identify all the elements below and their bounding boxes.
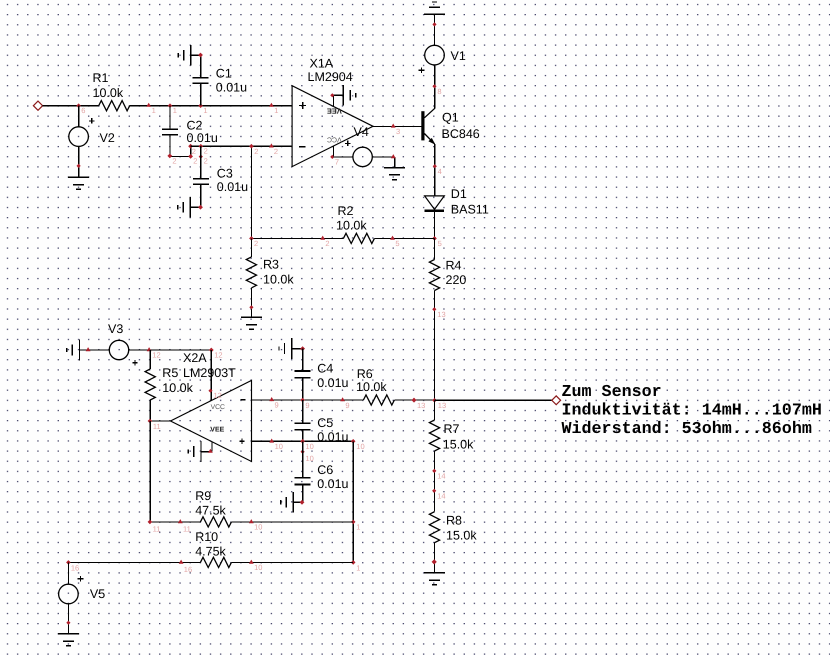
svg-text:LM2903T: LM2903T bbox=[183, 366, 236, 380]
voltage source V3 bbox=[109, 340, 128, 359]
wire C2 bottom jog bbox=[170, 136, 191, 157]
wire C6 bottom lead bbox=[293, 485, 302, 503]
wire V1 bottom bbox=[434, 65, 436, 109]
svg-text:13: 13 bbox=[437, 310, 445, 319]
pin mark X2A plus pin bbox=[269, 439, 274, 443]
plus sign V2 bbox=[89, 120, 95, 122]
svg-text:Q1: Q1 bbox=[442, 111, 459, 125]
ground V3 (rotated left) bbox=[79, 340, 81, 361]
svg-text:1: 1 bbox=[173, 106, 177, 115]
junction node N1/C1 bbox=[198, 103, 203, 108]
svg-text:R4: R4 bbox=[446, 258, 462, 272]
ground X1A VEE (rotated right) bbox=[342, 85, 344, 106]
op-amp X1A triangle bbox=[292, 86, 373, 167]
pin mark R1 right pin bbox=[146, 103, 151, 107]
pin mark X2A minus pin bbox=[269, 397, 274, 401]
pin mark R2 right bbox=[390, 236, 395, 240]
svg-text:12: 12 bbox=[214, 351, 222, 360]
svg-text:11: 11 bbox=[153, 422, 161, 431]
junction N6/C5 bbox=[300, 439, 305, 444]
wire R9 line bbox=[150, 521, 353, 523]
pin mark R7 bottom bbox=[432, 469, 436, 473]
wire node N6 (X2A + input line) bbox=[252, 440, 354, 442]
ground X2A VEE (rotated left) bbox=[200, 441, 202, 462]
junction X2A VCC top bbox=[209, 348, 214, 353]
svg-text:D1: D1 bbox=[451, 187, 467, 201]
capacitor C5 bbox=[295, 422, 311, 424]
ground C4 (rotated left) bbox=[291, 338, 293, 359]
svg-text:Widerstand: 53ohm...86ohm: Widerstand: 53ohm...86ohm bbox=[562, 420, 812, 439]
wire C3 top lead bbox=[200, 146, 202, 179]
resistor R2 bbox=[343, 233, 374, 243]
svg-text:2: 2 bbox=[204, 147, 208, 156]
capacitor C1 bbox=[193, 77, 209, 79]
pin mark V5 minus bbox=[66, 621, 70, 625]
wire C4 top lead bbox=[302, 349, 304, 371]
wire C4 bottom lead bbox=[302, 378, 304, 400]
svg-text:C1: C1 bbox=[216, 67, 232, 81]
pin mark R3 bottom bbox=[249, 305, 253, 309]
svg-text:V5: V5 bbox=[90, 587, 105, 601]
svg-text:1: 1 bbox=[274, 106, 278, 115]
pin mark V2 minus pin bbox=[77, 164, 81, 168]
svg-text:12: 12 bbox=[214, 391, 222, 400]
wire V4 to ground bbox=[372, 157, 394, 168]
svg-text:5: 5 bbox=[438, 239, 442, 248]
plus sign V3 bbox=[132, 362, 137, 364]
wire X2A output to R9 bbox=[149, 421, 151, 522]
diode D1 bbox=[424, 196, 444, 211]
junction node N3 (D1/R2/R4) bbox=[432, 236, 437, 241]
ground R8 bbox=[424, 572, 445, 574]
svg-text:15.0k: 15.0k bbox=[443, 438, 474, 452]
wire to sensor port bbox=[435, 399, 552, 401]
plus sign X1A + input bbox=[299, 105, 306, 107]
svg-text:Induktivität: 14mH...107mH: Induktivität: 14mH...107mH bbox=[562, 402, 822, 421]
svg-text:15.0k: 15.0k bbox=[446, 528, 477, 542]
wire C5 top lead bbox=[302, 400, 304, 423]
junction R9 left bbox=[148, 520, 153, 525]
svg-text:VCC: VCC bbox=[327, 136, 342, 143]
svg-text:3: 3 bbox=[396, 127, 400, 136]
svg-text:6: 6 bbox=[81, 106, 85, 115]
svg-text:R7: R7 bbox=[444, 422, 460, 436]
svg-text:10: 10 bbox=[254, 523, 262, 532]
svg-text:R9: R9 bbox=[195, 489, 211, 503]
junction C6 bottom bbox=[300, 500, 305, 505]
wire X1A output to Q1 base bbox=[373, 125, 422, 127]
svg-text:4: 4 bbox=[438, 167, 442, 176]
resistor R7 bbox=[429, 420, 439, 451]
svg-text:LM2904: LM2904 bbox=[308, 70, 353, 84]
capacitor C3 bbox=[193, 178, 209, 180]
svg-text:10.0k: 10.0k bbox=[162, 381, 193, 395]
svg-text:10: 10 bbox=[275, 442, 283, 451]
pin mark V4 right bbox=[391, 154, 396, 158]
svg-text:VEE: VEE bbox=[210, 427, 224, 434]
capacitor C4 bbox=[295, 370, 311, 372]
wire V3 right to X2A VCC node bbox=[129, 349, 212, 351]
wire C6 top lead bbox=[302, 441, 304, 478]
svg-text:C4: C4 bbox=[317, 362, 333, 376]
svg-text:10: 10 bbox=[306, 454, 314, 463]
svg-text:220: 220 bbox=[446, 273, 467, 287]
svg-text:10: 10 bbox=[356, 442, 364, 451]
svg-text:0.01u: 0.01u bbox=[216, 81, 247, 95]
pin mark X2A VEE bbox=[208, 449, 213, 453]
wire node N2 (X1A - input) bbox=[191, 145, 293, 147]
voltage source V5 bbox=[59, 584, 79, 604]
wire R10 line bbox=[68, 561, 353, 563]
wire R7 top lead bbox=[434, 400, 436, 420]
pin mark R8 top bbox=[432, 489, 436, 493]
svg-text:11: 11 bbox=[183, 525, 191, 534]
pin mark R10 left pin bbox=[179, 560, 184, 564]
svg-text:0.01u: 0.01u bbox=[217, 180, 248, 194]
svg-text:16: 16 bbox=[184, 565, 192, 574]
wire C2 top lead bbox=[169, 106, 171, 130]
svg-text:V1: V1 bbox=[451, 49, 466, 63]
junction C4 top bbox=[300, 346, 305, 351]
svg-text:C5: C5 bbox=[317, 416, 333, 430]
svg-text:0.01u: 0.01u bbox=[317, 376, 348, 390]
svg-text:0.01u: 0.01u bbox=[187, 131, 218, 145]
svg-text:2: 2 bbox=[172, 157, 176, 166]
pin mark X1A output bbox=[391, 124, 396, 128]
pin mark V3 plus side bbox=[147, 347, 152, 351]
pin mark X2A VCC bbox=[208, 389, 212, 393]
ground C6 (rotated left) bbox=[292, 492, 294, 513]
junction R8 bottom bbox=[432, 559, 437, 564]
wire node N4 (X2A - to R6) bbox=[252, 399, 435, 401]
svg-text:R10: R10 bbox=[195, 530, 218, 544]
svg-text:2: 2 bbox=[254, 147, 258, 156]
junction node N1/V2 bbox=[76, 103, 81, 108]
wire N2 to R3 node bbox=[250, 146, 252, 238]
voltage source V4 bbox=[353, 147, 372, 166]
ground V2 bbox=[68, 176, 89, 178]
svg-text:9: 9 bbox=[275, 401, 279, 410]
ground R3 bbox=[241, 316, 262, 318]
ground V1 (inverted, at top) bbox=[424, 13, 445, 15]
svg-text:Zum Sensor: Zum Sensor bbox=[562, 383, 662, 402]
ground C3 (rotated left) bbox=[189, 197, 191, 218]
pin mark R10 right pin bbox=[249, 560, 254, 564]
wire C4 ground stub bbox=[292, 348, 303, 350]
svg-text:2: 2 bbox=[192, 147, 196, 156]
wire feedback rail (N6 corner down to R10) bbox=[352, 441, 354, 562]
junction C2 bottom bbox=[167, 154, 172, 159]
pin mark X1A plus pin bbox=[269, 103, 274, 107]
junction R6 right bbox=[412, 398, 417, 403]
resistor R5 bbox=[145, 369, 155, 400]
port P1 input (left) bbox=[33, 101, 42, 110]
svg-text:C6: C6 bbox=[317, 463, 333, 477]
svg-text:47.5k: 47.5k bbox=[195, 504, 226, 518]
wire R5 top lead bbox=[149, 350, 151, 369]
wire V5 top lead bbox=[67, 562, 69, 584]
pin mark R4 bottom bbox=[432, 307, 436, 311]
wire X1A VCC to V4 bbox=[334, 156, 353, 158]
wire C1 ground stub bbox=[191, 54, 201, 56]
junction C2 corner bbox=[188, 154, 193, 159]
wire R4 bottom lead bbox=[434, 291, 436, 401]
svg-text:1: 1 bbox=[152, 106, 156, 115]
plus sign X2A + input bbox=[239, 440, 244, 442]
svg-text:X1A: X1A bbox=[310, 57, 334, 71]
wire R3 bottom lead bbox=[250, 288, 252, 318]
ground V5 bbox=[58, 633, 79, 635]
svg-text:12: 12 bbox=[152, 350, 160, 359]
svg-text:BC846: BC846 bbox=[442, 127, 480, 141]
ground V4 bbox=[384, 167, 405, 169]
junction rail/R10 bbox=[351, 560, 356, 565]
junction V5 top bbox=[66, 560, 71, 565]
svg-text:V2: V2 bbox=[100, 131, 115, 145]
port P2 Zum Sensor bbox=[552, 396, 561, 405]
pin mark X1A VEE bbox=[330, 93, 334, 97]
pin mark V1 plus bbox=[432, 84, 436, 88]
resistor R9 bbox=[200, 517, 231, 527]
resistor R1 bbox=[99, 101, 130, 111]
svg-text:10: 10 bbox=[306, 442, 314, 451]
svg-text:13: 13 bbox=[438, 401, 446, 410]
wire X1A VEE pin bbox=[334, 95, 344, 106]
svg-text:10.0k: 10.0k bbox=[263, 273, 294, 287]
plus sign V5 bbox=[78, 578, 84, 580]
svg-text:2: 2 bbox=[254, 239, 258, 248]
svg-text:VEE: VEE bbox=[327, 106, 342, 115]
svg-text:1: 1 bbox=[203, 106, 207, 115]
minus sign X1A - input bbox=[299, 146, 306, 148]
svg-text:R2: R2 bbox=[338, 204, 354, 218]
pin mark X1A minus pin bbox=[269, 143, 274, 147]
svg-text:V3: V3 bbox=[108, 322, 123, 336]
svg-text:0.01u: 0.01u bbox=[317, 477, 348, 491]
wire X1A VCC pin bbox=[333, 146, 335, 157]
svg-text:2: 2 bbox=[204, 157, 208, 166]
wire R3 top lead bbox=[250, 238, 252, 257]
wire R4 top lead bbox=[434, 238, 436, 259]
svg-text:2: 2 bbox=[274, 147, 278, 156]
resistor R6 bbox=[363, 395, 394, 405]
junction C1 top bbox=[198, 53, 203, 58]
resistor R3 bbox=[246, 257, 256, 288]
ground C1 (rotated left) bbox=[190, 45, 192, 66]
junction node N2/C3 bbox=[199, 144, 204, 149]
wire node N1 main horizontal (port to X1A + input) bbox=[43, 105, 293, 107]
junction C3 bottom bbox=[198, 205, 203, 210]
svg-text:16: 16 bbox=[71, 563, 79, 572]
svg-text:V4: V4 bbox=[354, 125, 369, 139]
wire V5 bottom lead bbox=[67, 604, 69, 634]
wire V2 bottom bbox=[78, 146, 80, 177]
capacitor C2 bbox=[162, 128, 178, 130]
resistor R8 bbox=[429, 512, 439, 543]
transistor Q1 base bar bbox=[421, 111, 424, 140]
wire X2A VEE pin bbox=[201, 442, 212, 452]
svg-text:14: 14 bbox=[437, 471, 445, 480]
svg-text:R3: R3 bbox=[263, 258, 279, 272]
wire R7 to R8 bbox=[434, 451, 436, 512]
svg-text:10: 10 bbox=[254, 563, 262, 572]
voltage source V1 bbox=[425, 45, 445, 65]
plus sign V1 bbox=[419, 69, 425, 71]
junction node N1/C2 bbox=[168, 103, 173, 108]
pin mark X1A VCC bbox=[330, 155, 334, 159]
pin mark C3 top pin bbox=[199, 155, 203, 159]
svg-text:BAS11: BAS11 bbox=[451, 203, 489, 217]
svg-text:2: 2 bbox=[325, 239, 329, 248]
svg-text:1: 1 bbox=[356, 563, 360, 572]
transistor Q1 collector bbox=[424, 65, 434, 118]
svg-text:R6: R6 bbox=[357, 367, 373, 381]
wire C3 bottom lead bbox=[190, 184, 201, 207]
wire X2A VCC pin bbox=[210, 350, 212, 401]
svg-text:C3: C3 bbox=[217, 167, 233, 181]
svg-text:8: 8 bbox=[437, 87, 441, 96]
svg-text:9: 9 bbox=[305, 401, 309, 410]
pin mark Q1 emitter bbox=[433, 164, 437, 168]
pin mark C6 top pin bbox=[301, 450, 305, 454]
junction N4/C4 bbox=[300, 398, 305, 403]
op-amp X2A triangle bbox=[171, 380, 252, 461]
resistor R10 bbox=[200, 557, 231, 567]
svg-text:1: 1 bbox=[356, 523, 360, 532]
junction node N2 top (N2/R3 riser) bbox=[249, 144, 254, 149]
svg-text:10.0k: 10.0k bbox=[356, 380, 387, 394]
svg-text:VCC: VCC bbox=[211, 404, 225, 411]
svg-text:10.0k: 10.0k bbox=[93, 86, 124, 100]
wire X2A output bbox=[150, 420, 170, 422]
wire D1 to node N3 bbox=[434, 211, 436, 239]
capacitor C6 bbox=[295, 477, 311, 479]
wire C1 bottom lead bbox=[200, 84, 202, 106]
svg-text:13: 13 bbox=[417, 401, 425, 410]
svg-text:R1: R1 bbox=[93, 71, 109, 85]
junction rail/R9 bbox=[351, 520, 356, 525]
svg-text:R5: R5 bbox=[162, 366, 178, 380]
plus sign V4 bbox=[345, 142, 351, 144]
resistor R4 bbox=[429, 260, 439, 291]
wire V1 top bbox=[434, 14, 436, 45]
transistor Q1 emitter with arrow bbox=[424, 134, 435, 196]
svg-text:11: 11 bbox=[153, 525, 161, 534]
junction X2A output node bbox=[148, 419, 153, 424]
junction N6 right corner bbox=[351, 439, 356, 444]
pin mark V1 minus bbox=[432, 22, 436, 26]
svg-text:14: 14 bbox=[437, 491, 445, 500]
svg-text:4.75k: 4.75k bbox=[195, 545, 226, 559]
junction C2 corner top bbox=[188, 144, 193, 149]
minus sign X2A - input bbox=[241, 399, 246, 401]
svg-text:R8: R8 bbox=[446, 514, 462, 528]
junction node N5 (R6/R4/R7/sensor) bbox=[432, 398, 437, 403]
pin mark V3 minus bbox=[86, 347, 91, 351]
svg-text:2: 2 bbox=[193, 157, 197, 166]
pin mark R9 left pin bbox=[178, 519, 183, 523]
wire R8 bottom lead bbox=[434, 543, 436, 573]
wire C5 bottom lead bbox=[302, 430, 304, 441]
wire R5 bottom lead bbox=[149, 400, 151, 421]
pin mark R9 right pin bbox=[249, 519, 254, 523]
svg-text:7: 7 bbox=[335, 158, 339, 167]
svg-text:9: 9 bbox=[345, 401, 349, 410]
pin mark R6 left bbox=[340, 397, 345, 401]
svg-text:5: 5 bbox=[395, 239, 399, 248]
voltage source V2 bbox=[69, 127, 89, 147]
svg-text:10.0k: 10.0k bbox=[336, 219, 367, 233]
svg-text:X2A: X2A bbox=[183, 351, 207, 365]
wire R2 line bbox=[251, 237, 434, 239]
junction R2/R3 node bbox=[249, 236, 254, 241]
wire V2 top bbox=[78, 106, 80, 127]
pin mark R2 left bbox=[320, 236, 325, 240]
wire V3 left bbox=[80, 349, 110, 351]
wire C1 top lead bbox=[200, 55, 202, 77]
